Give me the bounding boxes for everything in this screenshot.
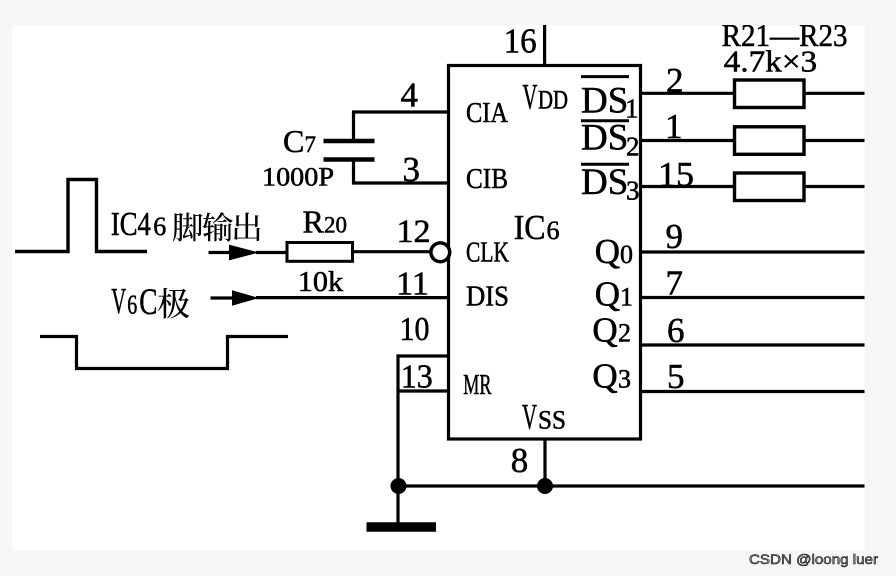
- waveform pulse low: [40, 337, 288, 369]
- wire DS3 right: [804, 185, 865, 188]
- wire R20 to CLK bubble: [353, 250, 431, 253]
- svg-text:IC: IC: [514, 208, 546, 247]
- svg-text:9: 9: [666, 217, 684, 256]
- svg-text:8: 8: [511, 441, 529, 480]
- svg-text:3: 3: [618, 365, 631, 394]
- wire arrow2 tail: [211, 296, 235, 299]
- hanzi chu: [234, 212, 260, 241]
- wire DS2 right: [804, 139, 865, 142]
- svg-text:2: 2: [626, 132, 640, 162]
- svg-text:Q: Q: [592, 357, 617, 396]
- svg-text:10: 10: [400, 311, 430, 348]
- svg-text:16: 16: [504, 22, 537, 61]
- resistor R20: [287, 243, 353, 262]
- svg-text:4: 4: [401, 76, 419, 115]
- wire DS1 left: [641, 92, 735, 95]
- svg-text:0: 0: [620, 240, 633, 269]
- svg-text:1000P: 1000P: [262, 163, 334, 192]
- wire pin11 DIS: [256, 296, 449, 299]
- wire DS2 left: [641, 139, 735, 142]
- wire ground rail: [398, 484, 865, 487]
- svg-text:12: 12: [397, 214, 431, 250]
- ground: [367, 522, 437, 532]
- svg-text:2: 2: [618, 319, 631, 348]
- resistor R21: [735, 80, 805, 108]
- svg-text:3: 3: [403, 150, 421, 189]
- svg-text:4.7k×3: 4.7k×3: [724, 44, 817, 79]
- hanzi shu: [203, 212, 233, 241]
- wire capacitor top lead: [352, 112, 355, 140]
- wire pin8 VSS: [543, 439, 546, 486]
- svg-text:DD: DD: [538, 86, 568, 115]
- wire pin10: [398, 354, 449, 357]
- wire ground vertical: [396, 354, 399, 527]
- svg-text:SS: SS: [538, 406, 566, 435]
- wire R20 left: [256, 251, 287, 254]
- svg-text:11: 11: [396, 265, 429, 302]
- arrow input 2: [232, 290, 259, 306]
- wire Q0: [641, 250, 865, 253]
- svg-text:1: 1: [665, 107, 683, 146]
- svg-text:R: R: [303, 204, 325, 240]
- hanzi ji: [158, 288, 189, 319]
- wire Q2: [641, 343, 865, 346]
- svg-text:1: 1: [620, 283, 633, 312]
- arrow input 1: [229, 245, 259, 261]
- wire Q1: [641, 296, 865, 299]
- svg-text:C: C: [139, 282, 157, 323]
- wire capacitor bottom lead: [352, 161, 355, 183]
- wire arrow1 tail: [209, 251, 233, 254]
- svg-text:5: 5: [667, 357, 685, 396]
- waveform pulse high: [15, 180, 147, 252]
- wire pin13 MR: [398, 389, 449, 392]
- svg-text:IC4: IC4: [111, 206, 151, 243]
- overline DS1: [581, 75, 629, 78]
- svg-text:15: 15: [658, 155, 694, 194]
- svg-text:Q: Q: [595, 275, 620, 314]
- IC IC6 body rectangle: [449, 66, 641, 440]
- svg-text:V: V: [522, 397, 537, 437]
- svg-text:MR: MR: [463, 369, 492, 401]
- svg-text:V: V: [522, 77, 537, 117]
- svg-text:CLK: CLK: [466, 236, 509, 268]
- svg-text:6: 6: [547, 216, 560, 245]
- node junction pin8: [537, 478, 553, 494]
- svg-text:CIA: CIA: [466, 97, 508, 129]
- wire DS3 left: [641, 185, 735, 188]
- wire pin4 CIA: [352, 110, 449, 113]
- svg-text:CIB: CIB: [466, 163, 508, 195]
- svg-text:20: 20: [324, 213, 347, 238]
- resistor R23: [735, 173, 805, 201]
- svg-text:10k: 10k: [298, 266, 344, 298]
- capacitor C7: [324, 141, 375, 160]
- svg-text:Q: Q: [592, 311, 617, 350]
- svg-text:DS: DS: [581, 162, 628, 203]
- svg-text:3: 3: [626, 176, 640, 206]
- svg-text:13: 13: [401, 359, 433, 396]
- node junction ground: [391, 478, 407, 494]
- wire Q3: [641, 390, 865, 393]
- wire pin16 VDD supply: [543, 25, 546, 66]
- hanzi jiao: [173, 212, 202, 241]
- svg-text:DS: DS: [581, 118, 628, 159]
- svg-text:6: 6: [153, 212, 166, 241]
- svg-text:2: 2: [666, 61, 684, 100]
- svg-text:DS: DS: [581, 80, 628, 121]
- svg-text:Q: Q: [595, 232, 620, 271]
- node CLK bubble: [431, 243, 450, 262]
- svg-text:C: C: [283, 123, 304, 159]
- wire DS1 right: [804, 92, 865, 95]
- overline DS2: [581, 119, 629, 122]
- svg-text:CSDN @loong luer: CSDN @loong luer: [749, 551, 878, 567]
- overline DS3: [581, 163, 629, 166]
- wire pin3 CIB: [352, 181, 449, 184]
- svg-text:7: 7: [305, 132, 317, 157]
- svg-text:V: V: [111, 282, 126, 323]
- svg-text:DIS: DIS: [466, 281, 509, 313]
- svg-text:6: 6: [667, 311, 685, 350]
- resistor R22: [735, 127, 805, 155]
- svg-text:6: 6: [127, 290, 137, 320]
- svg-text:7: 7: [666, 264, 684, 303]
